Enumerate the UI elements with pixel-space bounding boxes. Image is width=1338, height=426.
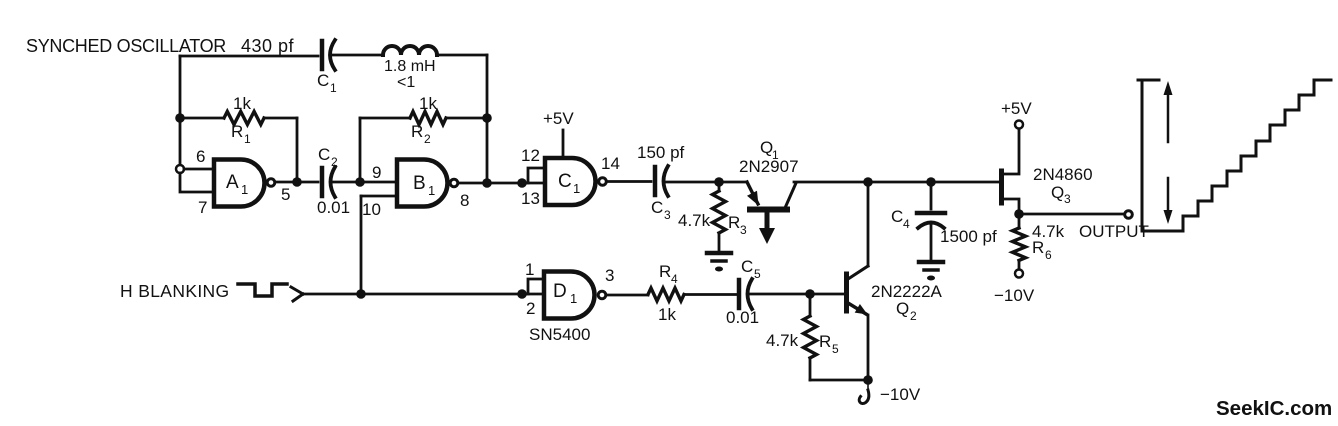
resistor R2 <box>360 117 410 120</box>
svg-text:D: D <box>553 281 567 302</box>
wire L1 to right rail <box>437 54 487 57</box>
NAND gate C1 <box>545 158 596 205</box>
node input terminal A1 <box>176 165 184 173</box>
svg-text:R: R <box>728 213 740 232</box>
resistor R1 <box>180 117 224 120</box>
svg-text:10: 10 <box>362 200 381 219</box>
svg-text:4: 4 <box>903 217 910 231</box>
ground C4 <box>919 260 943 265</box>
svg-text:C: C <box>318 145 330 164</box>
svg-text:6: 6 <box>1045 248 1052 262</box>
node pin12/13 junction <box>517 178 527 188</box>
svg-text:+5V: +5V <box>1001 99 1032 118</box>
svg-text:C: C <box>317 71 329 90</box>
svg-text:1500 pf: 1500 pf <box>940 227 997 246</box>
wire C1 to L1 <box>333 54 383 57</box>
svg-text:2: 2 <box>526 299 535 318</box>
svg-text:H BLANKING: H BLANKING <box>120 281 230 301</box>
wire H blanking row <box>303 293 522 296</box>
resistor R4 <box>648 288 684 301</box>
wire pin 1 jog <box>528 279 543 294</box>
wire C3 to Q1 <box>666 181 747 184</box>
node C2 right junction <box>355 177 365 187</box>
svg-text:−10V: −10V <box>880 385 921 404</box>
capacitor C1 <box>320 41 325 69</box>
svg-text:SeekIC.com: SeekIC.com <box>1216 397 1332 420</box>
svg-text:1: 1 <box>241 182 248 197</box>
svg-text:2: 2 <box>331 155 338 169</box>
node pin10 junction <box>356 289 366 299</box>
wire C1 gate out to C3 <box>608 180 652 183</box>
arrow down <box>1167 178 1170 212</box>
svg-text:9: 9 <box>372 163 381 182</box>
svg-text:C: C <box>651 198 663 217</box>
svg-text:7: 7 <box>198 198 207 217</box>
wire output <box>1019 213 1124 216</box>
svg-text:5: 5 <box>281 185 290 204</box>
svg-text:R: R <box>1032 238 1044 257</box>
svg-text:B: B <box>413 173 426 194</box>
svg-text:0.01: 0.01 <box>317 198 350 217</box>
wire top rail left <box>180 55 318 58</box>
wire Q1 collector to right <box>794 181 999 184</box>
capacitor C2 <box>320 168 325 196</box>
svg-text:R: R <box>231 122 243 141</box>
wire D1 out <box>607 294 648 297</box>
svg-text:1k: 1k <box>419 94 437 113</box>
svg-text:+5V: +5V <box>543 109 574 128</box>
svg-text:1: 1 <box>244 132 251 146</box>
svg-text:1: 1 <box>428 183 435 198</box>
node R1 left junction <box>175 113 185 123</box>
wire pin 10 <box>361 195 397 198</box>
svg-text:3: 3 <box>664 208 671 222</box>
wire pin 2 <box>522 293 543 296</box>
svg-text:1k: 1k <box>233 94 251 113</box>
svg-text:1: 1 <box>570 291 577 306</box>
NAND gate A1 <box>214 160 264 207</box>
svg-text:SYNCHED OSCILLATOR: SYNCHED OSCILLATOR <box>26 36 226 56</box>
NAND gate D1 <box>544 272 594 319</box>
svg-text:3: 3 <box>740 223 747 237</box>
svg-text:14: 14 <box>601 154 620 173</box>
svg-text:13: 13 <box>521 189 540 208</box>
svg-text:150 pf: 150 pf <box>637 143 685 162</box>
transistor Q3 2N4860 <box>999 171 1004 203</box>
svg-text:1k: 1k <box>658 305 676 324</box>
ground R3 <box>707 251 731 256</box>
wire C5 to Q2 base <box>750 293 844 296</box>
svg-text:2N2907: 2N2907 <box>739 157 799 176</box>
svg-text:OUTPUT: OUTPUT <box>1079 222 1149 241</box>
resistor R6 <box>1018 214 1021 228</box>
svg-text:C: C <box>891 207 903 226</box>
svg-text:1: 1 <box>330 81 337 95</box>
node A1 output junction <box>292 177 302 187</box>
wire C2 to B1 pin9 <box>333 181 397 184</box>
node Q2 collector junction <box>863 177 873 187</box>
svg-text:R: R <box>659 262 671 281</box>
resistor R3 <box>718 182 721 191</box>
power -10V terminal Q2 <box>867 380 869 388</box>
svg-text:1.8 mH: 1.8 mH <box>384 58 436 75</box>
svg-text:Q: Q <box>896 299 909 318</box>
wire A1 out to C2 <box>276 181 319 184</box>
svg-text:2N4860: 2N4860 <box>1033 165 1093 184</box>
svg-text:1: 1 <box>525 260 534 279</box>
wire pin 13 <box>522 182 545 185</box>
arrow input <box>291 287 303 301</box>
wire left rail <box>179 56 182 165</box>
svg-text:430 pf: 430 pf <box>241 36 295 56</box>
transistor Q2 2N2222A <box>844 274 849 311</box>
svg-text:4.7k: 4.7k <box>766 331 799 350</box>
waveform staircase <box>1138 80 1331 231</box>
wire R1 right down to A1 output <box>296 118 299 182</box>
svg-text:R: R <box>819 332 831 351</box>
svg-text:12: 12 <box>521 146 540 165</box>
wire pin 6 <box>184 168 214 171</box>
svg-text:5: 5 <box>832 342 839 356</box>
svg-text:5: 5 <box>754 267 761 281</box>
svg-text:2: 2 <box>910 309 917 323</box>
NAND gate B1 <box>397 160 447 207</box>
resistor R5 <box>809 294 812 316</box>
inductor 1.8 mH <box>383 46 437 55</box>
svg-text:1: 1 <box>573 181 580 196</box>
capacitor C3 <box>653 167 658 195</box>
svg-text:Q: Q <box>1051 183 1064 202</box>
node emitter junction <box>863 375 873 385</box>
arrow up <box>1167 93 1170 142</box>
svg-text:0.01: 0.01 <box>726 308 759 327</box>
svg-text:4: 4 <box>671 272 678 286</box>
node D1 input junction <box>517 289 527 299</box>
svg-text:4.7k: 4.7k <box>678 211 711 230</box>
pulse symbol <box>238 284 287 296</box>
node B1 output junction <box>482 178 492 188</box>
capacitor C5 <box>737 280 742 308</box>
svg-text:2: 2 <box>424 132 431 146</box>
svg-text:<1: <1 <box>397 74 415 91</box>
node C3 junction <box>714 177 724 187</box>
svg-text:8: 8 <box>460 191 469 210</box>
node R5 junction <box>805 289 815 299</box>
wire junction up to R2 <box>359 118 362 182</box>
node C4 junction <box>926 177 936 187</box>
wire right rail <box>486 55 489 182</box>
svg-text:−10V: −10V <box>994 286 1035 305</box>
svg-text:R: R <box>411 122 423 141</box>
svg-text:3: 3 <box>605 266 614 285</box>
svg-text:6: 6 <box>196 147 205 166</box>
svg-text:SN5400: SN5400 <box>529 325 590 344</box>
svg-text:C: C <box>558 171 572 192</box>
wire pin 7 <box>180 173 214 192</box>
capacitor C4 <box>930 182 933 209</box>
svg-text:A: A <box>226 172 239 193</box>
wire pin 12 jog <box>528 168 545 183</box>
node R2 right junction <box>482 113 492 123</box>
wire B1 out <box>459 182 522 185</box>
svg-text:C: C <box>741 257 753 276</box>
svg-text:3: 3 <box>1064 192 1071 206</box>
